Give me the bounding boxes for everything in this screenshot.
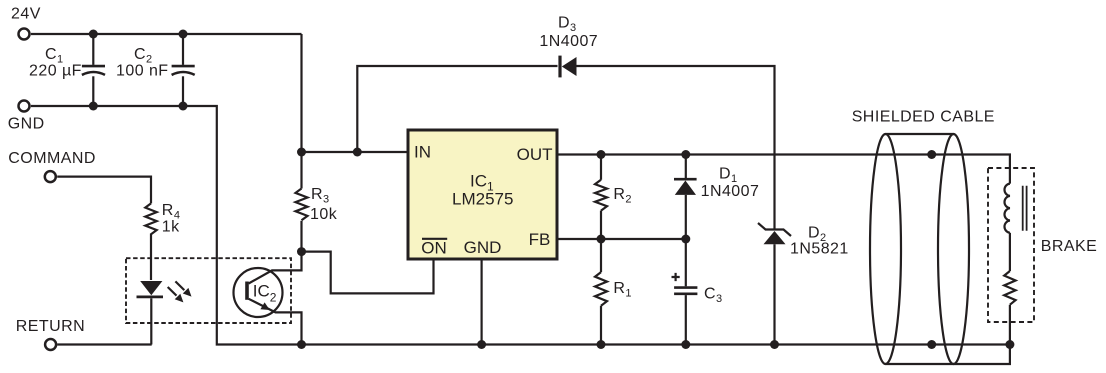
IC U1 LM2575 box: [408, 130, 557, 259]
svg-text:220 µF: 220 µF: [29, 62, 82, 79]
svg-text:100 nF: 100 nF: [116, 62, 169, 79]
resistor R1: [595, 239, 607, 345]
terminal COMMAND: [45, 171, 56, 182]
shield ellipse right: [938, 134, 969, 364]
svg-text:GND: GND: [8, 115, 45, 132]
shield bottom connector to brake return: [886, 345, 1010, 365]
wire R3 bottom to junction: [300, 221, 302, 252]
LED light arrows: [168, 281, 192, 302]
brake coil inductor: [1004, 184, 1009, 233]
wire vertical down to IN line: [300, 34, 302, 152]
wire RETURN rail: [57, 343, 152, 345]
junction dot D1/C3/FB: [681, 235, 690, 244]
junction dot IN/R3: [297, 148, 306, 157]
capacitor C1: [82, 34, 105, 106]
resistor R2: [595, 155, 607, 240]
svg-text:GND: GND: [464, 238, 502, 257]
brake resistor: [1004, 271, 1015, 305]
svg-text:10k: 10k: [310, 206, 338, 223]
resistor R3: [296, 189, 308, 221]
wire R4 to LED: [150, 234, 152, 281]
diode D1: [674, 155, 697, 240]
svg-text:ON: ON: [421, 238, 447, 257]
junction dot IC2 emitter on rail: [297, 340, 306, 349]
LED of IC2: [137, 281, 164, 345]
optocoupler dashed box: [126, 258, 291, 323]
resistor R4: [145, 203, 156, 234]
terminal GND: [19, 101, 30, 112]
transistor IC2: [234, 252, 302, 345]
wire IN line: [302, 151, 409, 153]
svg-text:FB: FB: [529, 230, 551, 249]
junction dot C1 bottom: [89, 102, 98, 111]
junction dot R2/FB: [597, 235, 606, 244]
svg-text:IN: IN: [414, 142, 431, 161]
wire FB line: [557, 238, 686, 240]
shield top connector: [886, 133, 954, 135]
junction dot brake on rail: [1005, 340, 1014, 349]
svg-text:RETURN: RETURN: [16, 318, 85, 335]
wire top rail from 24V to corner above R3: [31, 33, 302, 35]
wire GND rail to common rail: [31, 106, 1010, 345]
plus sign C3: [672, 273, 680, 281]
wire brake resistor to rail: [1009, 305, 1011, 345]
junction dot R1 on rail: [597, 340, 606, 349]
junction dot cable top: [927, 150, 936, 159]
junction dot C2 top: [179, 30, 188, 39]
svg-text:1k: 1k: [162, 218, 180, 235]
svg-text:1N4007: 1N4007: [539, 33, 598, 50]
svg-text:1N4007: 1N4007: [701, 183, 760, 200]
junction dot C1 top: [89, 30, 98, 39]
svg-text:OUT: OUT: [517, 145, 553, 164]
junction dot D3 branch on IN line: [353, 148, 362, 157]
diode D3: [357, 56, 774, 155]
wire coil to brake resistor: [1009, 233, 1011, 271]
svg-text:COMMAND: COMMAND: [8, 150, 96, 167]
junction dot D1 top: [681, 150, 690, 159]
junction dot C2 bottom: [179, 102, 188, 111]
svg-text:BRAKE: BRAKE: [1041, 238, 1098, 255]
shield ellipse left: [870, 134, 901, 364]
coil core lines: [1023, 186, 1027, 231]
wire R3 branch: IN line junction down through R3: [300, 152, 302, 189]
capacitor C2: [172, 34, 195, 106]
terminal 24V: [19, 29, 30, 40]
wire OUT rail to brake: [557, 155, 1010, 184]
junction dot D2 on rail: [770, 340, 779, 349]
brake dashed box: [988, 168, 1034, 322]
wire GND pin to rail: [481, 259, 483, 345]
terminal RETURN: [45, 339, 56, 350]
capacitor C3: [674, 239, 697, 345]
junction dot R2 top: [597, 150, 606, 159]
junction dot cable bottom: [927, 340, 936, 349]
junction dot GND pin on rail: [477, 340, 486, 349]
wire ON pin path: [302, 252, 434, 294]
junction dot R3 bottom: [297, 247, 306, 256]
junction dot C3 on rail: [681, 340, 690, 349]
diode D2 (Schottky): [758, 155, 791, 345]
wire COMMAND to R4: [57, 177, 151, 204]
svg-text:1N5821: 1N5821: [790, 241, 849, 258]
svg-text:LM2575: LM2575: [452, 190, 513, 209]
svg-text:SHIELDED CABLE: SHIELDED CABLE: [852, 109, 995, 126]
svg-text:24V: 24V: [11, 6, 41, 23]
